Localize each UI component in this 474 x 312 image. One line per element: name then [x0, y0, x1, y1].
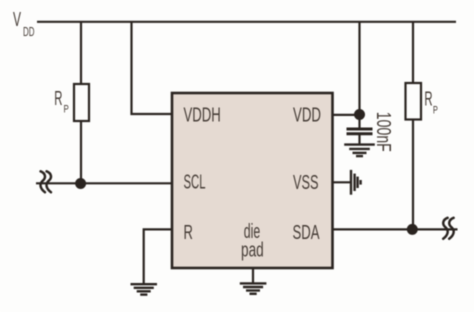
wire rail down to VDD pin junction	[358, 22, 360, 115]
svg-text:VDDH: VDDH	[184, 105, 221, 127]
node SCL junction	[75, 178, 86, 189]
svg-text:P: P	[433, 104, 438, 116]
bus break squiggle on SCL (left)	[41, 171, 51, 192]
svg-text:VDD: VDD	[293, 105, 321, 127]
wire VSS pin to ground	[333, 181, 352, 183]
IC U1 body	[172, 93, 333, 268]
svg-text:V: V	[13, 9, 21, 31]
wire VDD pin to junction	[333, 114, 360, 116]
wire right resistor bottom to SDA node	[412, 120, 414, 230]
wire rail to left resistor R1	[80, 22, 82, 84]
ground at VSS pin (rotated)	[351, 170, 361, 195]
node VDD junction	[354, 109, 365, 120]
wire VDD top rail	[37, 21, 456, 23]
ground at R pin	[131, 284, 158, 294]
bus break squiggle on SDA (right)	[443, 218, 453, 239]
resistor R1	[74, 84, 89, 121]
svg-text:R: R	[54, 88, 62, 110]
svg-text:100nF: 100nF	[372, 112, 394, 152]
svg-text:DD: DD	[23, 24, 35, 39]
svg-text:SCL: SCL	[184, 171, 206, 193]
wire rail down to VDDH pin	[132, 22, 173, 114]
svg-text:P: P	[64, 104, 69, 116]
wire junction to capacitor C1	[358, 115, 360, 129]
svg-text:R: R	[184, 222, 193, 244]
wire capacitor C1 to ground	[358, 134, 360, 145]
svg-text:R: R	[424, 89, 432, 111]
wire rail to right resistor R2	[412, 22, 414, 83]
node SDA junction	[407, 224, 418, 235]
svg-text:VSS: VSS	[293, 172, 319, 194]
wire SCL line	[36, 182, 172, 184]
wire left resistor bottom to SCL node	[80, 121, 82, 183]
wire die pad to ground	[252, 268, 254, 283]
svg-text:SDA: SDA	[293, 222, 320, 244]
wire SDA line	[333, 228, 458, 230]
capacitor C1 plates	[347, 129, 373, 134]
resistor R2	[406, 83, 422, 120]
svg-text:pad: pad	[241, 240, 264, 262]
ground at capacitor C1	[344, 145, 375, 157]
wire R pin to ground	[144, 229, 172, 284]
ground at die pad	[240, 283, 267, 293]
